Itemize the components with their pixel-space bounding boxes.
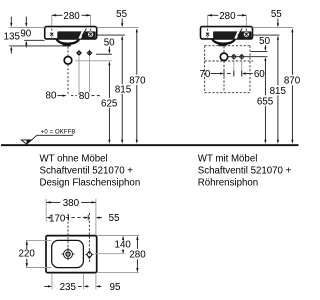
- svg-text:80: 80: [46, 90, 57, 101]
- svg-text:815: 815: [270, 86, 287, 97]
- dim 80 80 row: [46, 90, 100, 102]
- extension line 815 level left: [97, 34, 125, 36]
- svg-text:70: 70: [199, 69, 210, 80]
- dim 170: [46, 213, 81, 224]
- label text left column: [40, 153, 141, 188]
- hidden line 625 level in cabinet: [205, 60, 253, 62]
- line tap level right ext: [96, 53, 112, 55]
- extension line 870 level right: [253, 27, 294, 29]
- svg-text:95: 95: [110, 282, 121, 293]
- centerline tap right 2 down: [241, 60, 243, 77]
- overflow slash left: [82, 29, 87, 36]
- bowl underside left: [55, 39, 81, 46]
- svg-text:280: 280: [63, 11, 80, 22]
- dim 90: [20, 17, 31, 48]
- line through tap holes right: [228, 56, 268, 58]
- svg-text:90: 90: [20, 29, 31, 40]
- dim 55 plan: [83, 213, 120, 224]
- plan view washbasin outline: [46, 236, 97, 273]
- dim 380: [46, 198, 96, 235]
- svg-text:280: 280: [129, 249, 146, 260]
- dim 870 left: [129, 28, 146, 143]
- svg-text:80: 80: [79, 91, 90, 102]
- svg-text:Design Flaschensiphon: Design Flaschensiphon: [40, 178, 141, 189]
- fixing hole left 1: [50, 29, 53, 38]
- extension line 90 bottom: [24, 39, 44, 41]
- svg-text:235: 235: [60, 282, 77, 293]
- floor line: [1, 144, 299, 146]
- svg-text:WT ohne Möbel: WT ohne Möbel: [40, 153, 108, 164]
- dim 50 right: [259, 36, 270, 61]
- plan view bowl: [52, 240, 84, 267]
- dim 280 right figure: [208, 11, 247, 27]
- centerline tap right 1 down: [233, 60, 235, 77]
- dim 140: [95, 236, 139, 254]
- dim 280 plan: [98, 236, 147, 273]
- siphon circle left: [64, 57, 72, 65]
- centerline siphon left: [67, 47, 69, 57]
- siphon circle right: [220, 53, 227, 60]
- svg-text:Röhrensiphon: Röhrensiphon: [198, 178, 258, 189]
- dim 280 left figure: [52, 11, 91, 27]
- svg-text:Schaftventil 521070 +: Schaftventil 521070 +: [40, 166, 134, 177]
- line 50 upper right: [251, 50, 268, 52]
- dim 655: [257, 58, 274, 143]
- centerline siphon right: [223, 46, 225, 92]
- svg-text:50: 50: [259, 36, 270, 47]
- drain plan: [61, 248, 74, 260]
- overflow slash right: [238, 29, 243, 36]
- washbasin body right (front view): [201, 27, 253, 39]
- dim 55 right: [271, 9, 282, 27]
- furniture cabinet dashed: [205, 46, 250, 93]
- svg-text:220: 220: [19, 249, 36, 260]
- floor level symbol: [21, 130, 75, 145]
- centerline tap A down: [78, 56, 80, 95]
- svg-text:280: 280: [219, 11, 236, 22]
- centerline tap diamond vertical: [88, 213, 90, 262]
- fixing hole left 2: [89, 29, 92, 38]
- dim 870 right: [284, 28, 301, 143]
- dim 625: [101, 61, 118, 144]
- svg-text:380: 380: [63, 198, 80, 209]
- svg-text:135: 135: [4, 31, 21, 42]
- svg-text:60: 60: [254, 69, 265, 80]
- fixing hole right 1: [206, 29, 209, 38]
- tap hole right 1: [232, 54, 236, 60]
- svg-text:870: 870: [129, 75, 146, 86]
- dim 135: [4, 17, 21, 54]
- line 625 level right ext: [75, 60, 112, 62]
- dim 815 right: [270, 36, 287, 144]
- dim 815 left: [115, 36, 132, 144]
- svg-text:55: 55: [271, 9, 282, 20]
- svg-text:170: 170: [49, 213, 66, 224]
- washbasin body left (front view): [45, 27, 97, 39]
- extension line 870 level left: [97, 27, 139, 29]
- svg-text:WT mit Möbel: WT mit Möbel: [198, 153, 258, 164]
- svg-text:Schaftventil 521070 +: Schaftventil 521070 +: [198, 166, 292, 177]
- dim 235 95 bottom row: [44, 274, 121, 293]
- label text right column: [198, 153, 292, 188]
- svg-text:870: 870: [284, 76, 300, 87]
- bowl underside right: [211, 39, 237, 46]
- dim 55 left: [116, 9, 127, 27]
- centerline drain vertical: [67, 214, 69, 259]
- tap hole right 2: [240, 54, 244, 60]
- dim 220: [19, 240, 52, 267]
- dim 70 60 row: [199, 69, 265, 80]
- dim 50 left: [104, 37, 115, 53]
- tap hole diamond plan: [87, 251, 92, 258]
- svg-text:+0 = OKFFB: +0 = OKFFB: [41, 130, 76, 136]
- tap hole marker left A: [76, 50, 82, 56]
- fixing hole right 2: [245, 29, 248, 38]
- extension line basin top level left: [9, 27, 45, 29]
- centerline tap B down: [89, 56, 91, 92]
- extension line 135 bottom: [9, 45, 70, 47]
- tap hole marker left B: [87, 50, 93, 56]
- svg-text:55: 55: [109, 213, 120, 224]
- extension line 815 level right: [253, 34, 280, 36]
